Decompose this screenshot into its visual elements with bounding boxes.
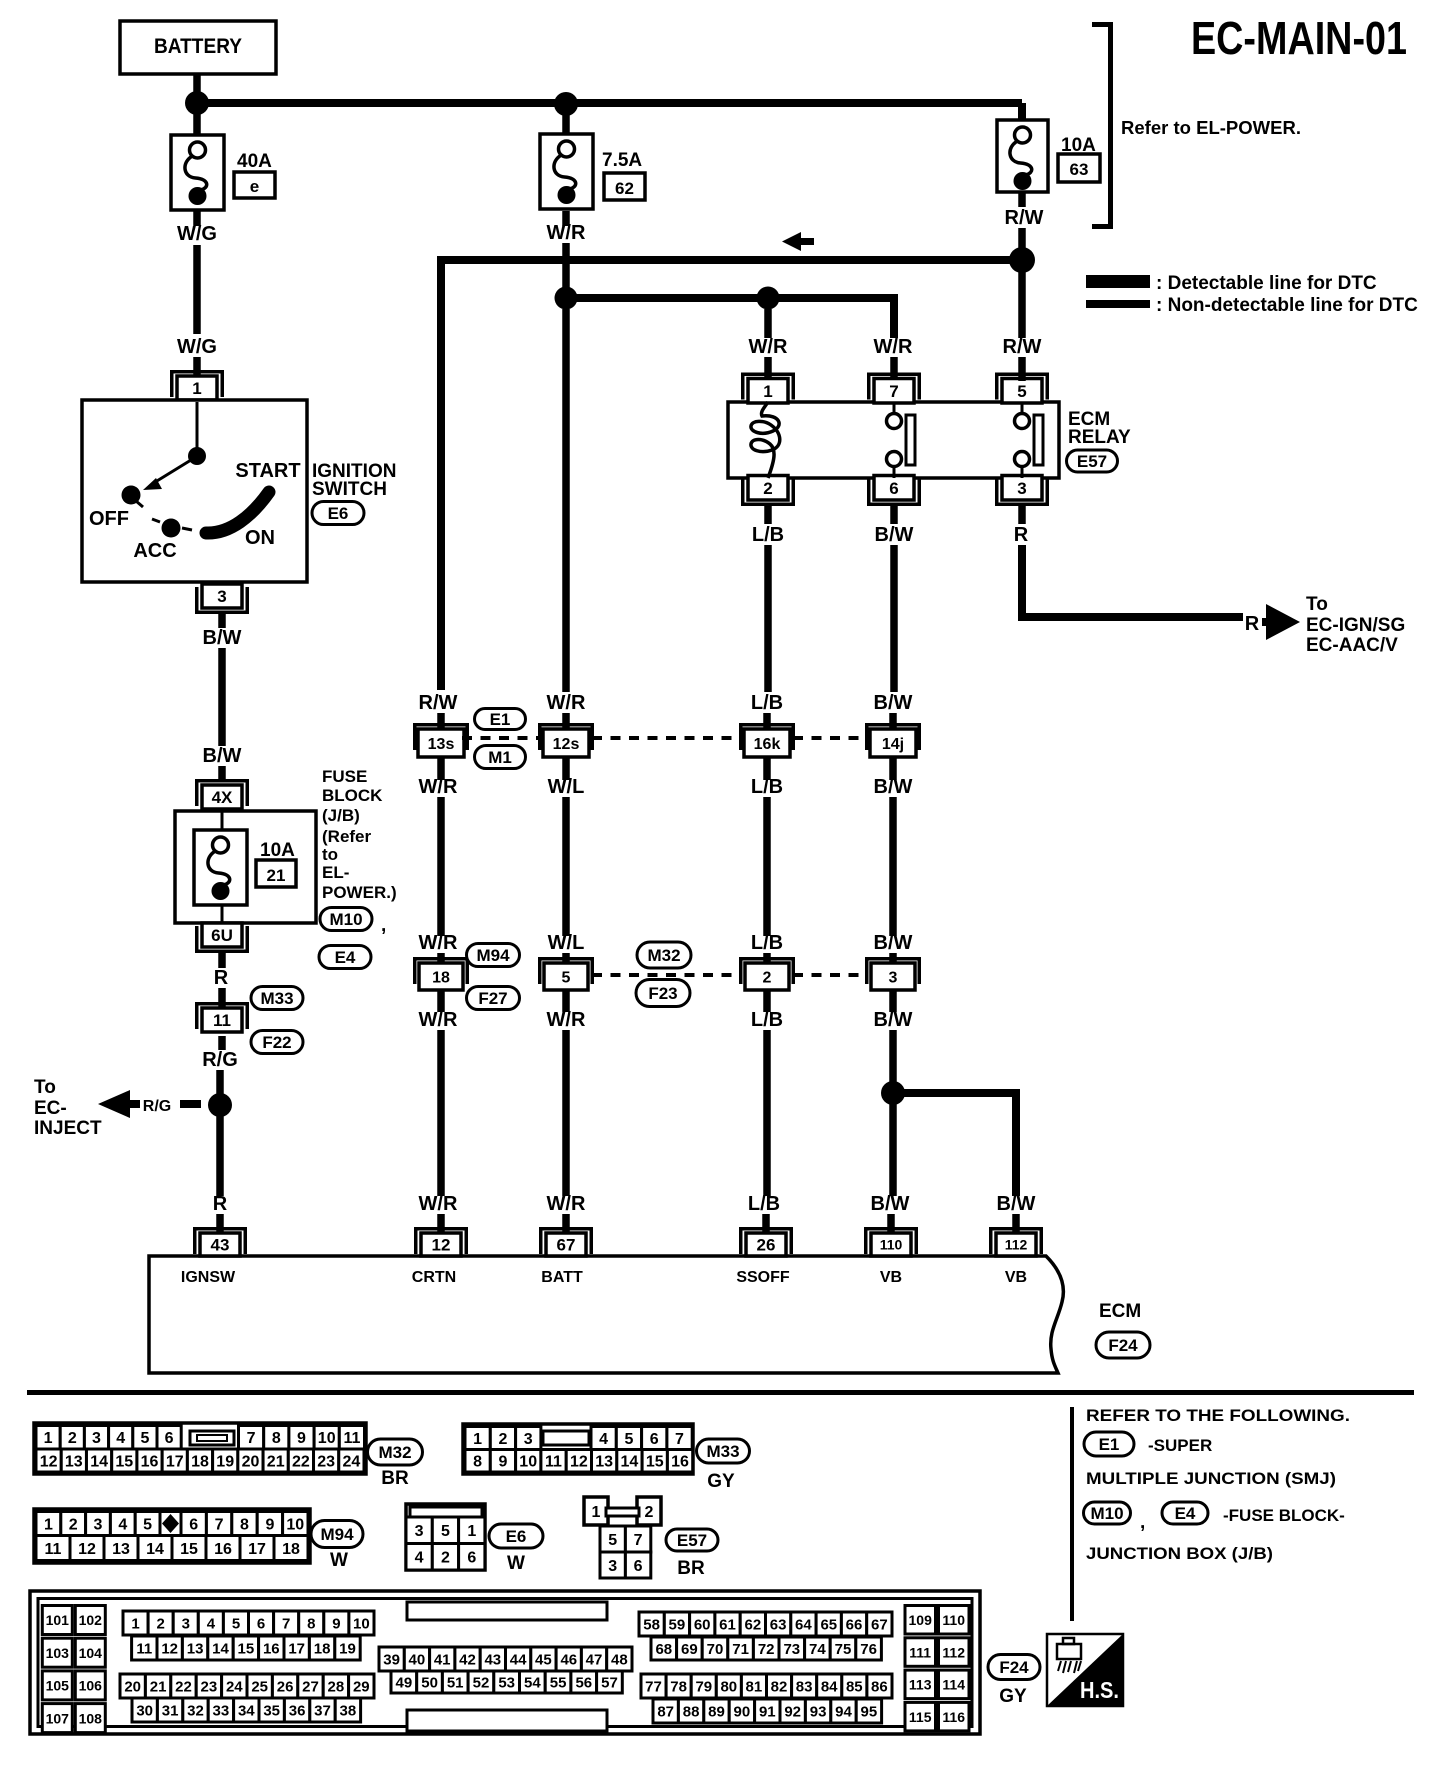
wire stub to 5 [562,953,570,966]
ECM pin 110 [864,1227,918,1256]
svg-text:SWITCH: SWITCH [312,479,387,500]
wire stub to 14j [889,713,897,731]
svg-text:19: 19 [216,1453,234,1470]
svg-text:7: 7 [889,382,898,401]
svg-text:2: 2 [68,1430,77,1447]
svg-text:48: 48 [611,1651,628,1668]
svg-text:9: 9 [265,1516,274,1533]
svg-text:74: 74 [809,1641,826,1658]
svg-text:16: 16 [263,1640,280,1657]
wire inside fuse block bottom [221,905,224,924]
wire L/B relay pin2 down [764,506,772,524]
svg-text:102: 102 [79,1612,103,1628]
svg-text:1: 1 [763,382,772,401]
svg-text:37: 37 [314,1702,331,1719]
connector 2 [739,957,795,990]
relay pin 7 [867,373,921,404]
svg-text:13: 13 [65,1453,83,1470]
dashed line 16k to 14j [793,736,868,740]
svg-text:3: 3 [217,587,226,606]
svg-text:63: 63 [770,1616,787,1633]
connector 5 [538,957,594,990]
svg-text:L/B: L/B [751,692,783,714]
connector 16k SMJ [739,723,795,757]
svg-text:88: 88 [683,1703,700,1720]
svg-text:EC-AAC/V: EC-AAC/V [1306,635,1398,656]
ECM box [149,1256,1063,1373]
wire 2 to label [763,990,771,1012]
svg-text:17: 17 [166,1453,184,1470]
svg-text:5: 5 [562,969,571,986]
svg-text:15: 15 [238,1640,255,1657]
svg-text:M94: M94 [320,1525,354,1544]
connector id oval M32 face [368,1439,423,1465]
svg-text:R: R [214,967,229,989]
wire stub to 2 [763,953,771,966]
wire to pin 110 [887,1214,895,1234]
svg-text:18: 18 [432,969,450,986]
svg-text:VB: VB [1005,1269,1027,1286]
wire W/L label to label [562,797,570,936]
wire 12s to label W/L [562,757,570,780]
svg-text:VB: VB [880,1269,902,1286]
svg-text:116: 116 [942,1709,965,1725]
svg-text:82: 82 [771,1678,788,1695]
svg-text:W/R: W/R [419,932,458,954]
svg-text:34: 34 [238,1702,255,1719]
legend non-detectable line bar [1086,300,1150,308]
svg-text:B/W: B/W [874,932,913,954]
connector id oval M94 face [311,1521,363,1548]
wire R label to pin 11 [218,988,226,1009]
ECM pin 67 [539,1227,593,1256]
svg-text:E4: E4 [335,948,356,967]
connector id oval E57 relay [1067,450,1118,472]
svg-text:,: , [1140,1512,1145,1533]
svg-text:CRTN: CRTN [412,1269,456,1286]
svg-text:E4: E4 [1175,1504,1196,1523]
svg-text:M1: M1 [488,748,512,767]
svg-text:11: 11 [343,1430,360,1447]
svg-text:7: 7 [675,1431,684,1448]
wire corner R/W from bus [437,260,445,690]
svg-text:: Detectable line for DTC: : Detectable line for DTC [1156,273,1377,294]
connector id oval E4 note [1162,1502,1208,1524]
svg-text:20: 20 [124,1678,141,1695]
svg-text:6: 6 [257,1615,265,1632]
svg-text:57: 57 [601,1674,618,1691]
svg-text:62: 62 [615,179,634,198]
svg-text:70: 70 [707,1641,724,1658]
svg-text:JUNCTION BOX (J/B): JUNCTION BOX (J/B) [1086,1544,1273,1563]
connector M33 pin grid [463,1424,693,1474]
wire R/G label to junction dot [216,1070,224,1096]
relay pin 6 [867,476,921,507]
svg-text:26: 26 [277,1678,294,1695]
svg-text:23: 23 [201,1678,218,1695]
junction dot bus fuse 62 [554,92,578,116]
svg-text:SSOFF: SSOFF [736,1269,790,1286]
svg-text:12: 12 [570,1454,588,1471]
junction dot B/W [881,1081,905,1105]
svg-text:5: 5 [1017,382,1026,401]
dashed line 2 to 3 [793,973,868,977]
svg-text:93: 93 [810,1703,827,1720]
connector 13s SMJ [413,723,469,757]
connector id oval E6 face [489,1524,543,1548]
svg-text:E6: E6 [506,1527,527,1546]
svg-text:F22: F22 [262,1033,291,1052]
svg-text:43: 43 [484,1651,501,1668]
connector id oval E4 [319,946,371,969]
svg-text:62: 62 [745,1616,762,1633]
svg-text:6: 6 [634,1558,643,1575]
svg-text:13: 13 [187,1640,204,1657]
F24 slot top [407,1602,607,1620]
svg-text:BATT: BATT [541,1269,583,1286]
svg-text:R/W: R/W [419,692,458,714]
svg-text:4: 4 [415,1550,424,1567]
battery [120,21,276,74]
svg-text:86: 86 [871,1678,888,1695]
svg-text:5: 5 [140,1430,149,1447]
svg-text:E57: E57 [1077,452,1107,471]
svg-text:75: 75 [835,1641,852,1658]
svg-text:1: 1 [131,1615,139,1632]
svg-text:6: 6 [165,1430,174,1447]
relay pin 1 [741,373,795,404]
connector id oval F27 [467,987,520,1010]
svg-text:73: 73 [783,1641,800,1658]
svg-text:11: 11 [136,1640,152,1657]
svg-text:OFF: OFF [89,508,129,530]
svg-text:59: 59 [669,1616,686,1633]
wire 3 to label [889,990,897,1012]
svg-text:101: 101 [46,1612,70,1628]
legend detectable line bar [1086,275,1150,288]
svg-text:87: 87 [657,1703,674,1720]
svg-text:18: 18 [282,1541,300,1558]
svg-text:84: 84 [821,1678,838,1695]
svg-text:89: 89 [708,1703,725,1720]
svg-text:GY: GY [999,1686,1027,1707]
arrow to EC-IGN/SG [1262,604,1300,640]
svg-text:114: 114 [942,1677,965,1693]
svg-text:4: 4 [118,1516,127,1533]
fuse 10A 63 [997,120,1048,192]
svg-text:7: 7 [247,1430,256,1447]
svg-text:41: 41 [434,1651,451,1668]
svg-text:69: 69 [681,1641,698,1658]
wire 14j to label [889,757,897,780]
svg-text:3: 3 [524,1431,533,1448]
svg-text:1: 1 [467,1523,476,1540]
svg-text:19: 19 [339,1640,356,1657]
svg-text:W/R: W/R [874,336,913,358]
wire R/W fuse63 to dot [1018,192,1026,338]
svg-text:3: 3 [182,1615,190,1632]
svg-text:1: 1 [473,1431,482,1448]
svg-text:6: 6 [189,1516,198,1533]
svg-text:W/R: W/R [547,1193,586,1215]
wire W/G label to pin 1 [193,357,201,378]
pin 3 ignition switch [195,584,249,614]
svg-text:EC-: EC- [34,1098,67,1119]
svg-text:13s: 13s [428,736,455,753]
svg-text:5: 5 [143,1516,152,1533]
svg-text:3: 3 [608,1558,617,1575]
svg-text:11: 11 [213,1011,231,1030]
svg-text:61: 61 [719,1616,736,1633]
svg-text:e: e [250,177,259,196]
svg-text:18: 18 [314,1640,331,1657]
wire 16k to label [763,757,771,780]
svg-text:106: 106 [79,1678,103,1694]
svg-text:16: 16 [141,1453,159,1470]
F24 pin rows 58-76 [639,1612,892,1660]
connector id oval E6 [312,502,364,525]
svg-text:W/R: W/R [419,776,458,798]
svg-text:H.S.: H.S. [1080,1677,1119,1703]
svg-text:ECM: ECM [1099,1301,1141,1322]
F24 pin rows 1-19 [123,1611,374,1660]
svg-text:13: 13 [595,1454,613,1471]
svg-text:3: 3 [92,1430,101,1447]
svg-text:56: 56 [575,1674,592,1691]
F24 slot bottom [407,1710,607,1731]
dashed line 13s to 12s [462,736,538,740]
svg-text:5: 5 [232,1615,240,1632]
svg-text:10: 10 [286,1516,304,1533]
svg-text:B/W: B/W [997,1193,1036,1215]
svg-text:31: 31 [162,1702,179,1719]
svg-text:7: 7 [215,1516,224,1533]
connector E6 pin grid [406,1504,485,1570]
svg-text:7: 7 [282,1615,290,1632]
svg-text:10: 10 [353,1615,370,1632]
pin 4X fuse block [195,779,249,809]
svg-text:11: 11 [545,1454,562,1471]
svg-text:65: 65 [820,1616,837,1633]
svg-text:49: 49 [396,1674,413,1691]
svg-text:109: 109 [909,1612,933,1628]
svg-text:,: , [381,915,386,936]
svg-text:-SUPER: -SUPER [1148,1436,1212,1455]
svg-text:26: 26 [757,1236,776,1255]
svg-text:22: 22 [175,1678,192,1695]
svg-text:R: R [1245,613,1260,635]
pin 6U fuse block [195,923,249,953]
svg-text:EC-MAIN-01: EC-MAIN-01 [1191,12,1407,64]
svg-text:To: To [34,1077,56,1098]
svg-text:53: 53 [498,1674,515,1691]
wire horizontal W/R y298 [566,294,894,302]
svg-text:92: 92 [784,1703,801,1720]
svg-text:W/R: W/R [419,1009,458,1031]
svg-text:42: 42 [459,1651,476,1668]
svg-text:GY: GY [707,1471,735,1492]
wire to pin 26 [762,1214,770,1234]
wire B/W relay pin6 down [890,506,898,524]
ignition switch internals [122,402,270,538]
wire bus to fuse 62 [562,104,570,135]
svg-text:66: 66 [846,1616,863,1633]
svg-text:M10: M10 [1090,1504,1123,1523]
svg-text:77: 77 [645,1678,662,1695]
svg-text:12: 12 [432,1236,451,1255]
ECM pin 43 [193,1227,247,1256]
svg-text:21: 21 [267,866,286,885]
svg-text:6: 6 [467,1550,476,1567]
svg-text:110: 110 [942,1612,965,1628]
svg-text:8: 8 [240,1516,249,1533]
svg-text:W/R: W/R [547,692,586,714]
svg-text:14: 14 [621,1454,639,1471]
svg-text:107: 107 [46,1710,70,1726]
junction dot R/W [1009,247,1035,273]
svg-text:28: 28 [328,1678,345,1695]
svg-text:4: 4 [599,1431,608,1448]
svg-text:36: 36 [289,1702,306,1719]
svg-text:3: 3 [94,1516,103,1533]
svg-text:MULTIPLE JUNCTION (SMJ): MULTIPLE JUNCTION (SMJ) [1086,1469,1336,1488]
relay pin 5 [995,373,1049,404]
svg-text:12: 12 [40,1453,58,1470]
svg-text:94: 94 [835,1703,852,1720]
svg-text:To: To [1306,594,1328,615]
svg-text:W/R: W/R [749,336,788,358]
label ECM RELAY [1068,409,1131,448]
svg-text:: Non-detectable line for DTC: : Non-detectable line for DTC [1156,295,1418,316]
svg-text:12: 12 [78,1541,96,1558]
connector M32 pin grid [34,1423,366,1474]
svg-text:START: START [235,460,300,482]
fuse 10A 21 in fuse block [194,830,247,905]
svg-text:to: to [322,845,338,864]
svg-text:R: R [1014,524,1029,546]
wire R label to corner [1018,545,1026,621]
svg-text:8: 8 [307,1615,315,1632]
wire to pin 67 [562,1214,570,1234]
svg-text:60: 60 [694,1616,711,1633]
svg-text:1: 1 [592,1504,601,1521]
svg-text:EC-IGN/SG: EC-IGN/SG [1306,615,1405,636]
svg-text:103: 103 [46,1645,70,1661]
svg-text:R: R [213,1193,228,1215]
svg-text:R/G: R/G [202,1049,238,1071]
svg-text:2: 2 [645,1504,654,1521]
F24 right pin group 109-116 [905,1606,969,1731]
svg-text:BR: BR [677,1558,705,1579]
svg-text:17: 17 [248,1541,266,1558]
svg-text:18: 18 [191,1453,209,1470]
svg-text:B/W: B/W [874,776,913,798]
svg-text:ON: ON [245,527,275,549]
dashed line 5 to 2 [592,973,740,977]
svg-text:90: 90 [734,1703,751,1720]
svg-text:F23: F23 [648,984,677,1003]
svg-text:80: 80 [720,1678,737,1695]
svg-text:-FUSE BLOCK-: -FUSE BLOCK- [1223,1506,1345,1525]
svg-text:67: 67 [871,1616,888,1633]
F24 pin rows 20-38 [120,1674,374,1722]
svg-text:91: 91 [759,1703,776,1720]
ignition switch E6 box [82,400,307,582]
svg-text:4: 4 [116,1430,125,1447]
wire R label to pin 43 [216,1214,224,1234]
vertical rule refer section [1070,1407,1074,1621]
svg-text:INJECT: INJECT [34,1118,102,1139]
svg-text:1: 1 [44,1516,53,1533]
svg-text:W/R: W/R [547,1009,586,1031]
wire dot to label above pin 110 [889,1104,897,1196]
svg-text:63: 63 [1070,160,1089,179]
connector id oval M32 smj [637,942,691,968]
pin 1 ignition switch [170,370,224,400]
fuse 40A e [171,135,224,210]
svg-text:3: 3 [415,1523,424,1540]
svg-text:10: 10 [318,1430,336,1447]
svg-text:22: 22 [292,1453,310,1470]
svg-text:81: 81 [746,1678,763,1695]
svg-text:2: 2 [763,969,772,986]
svg-text:76: 76 [860,1641,877,1658]
svg-text:12s: 12s [553,736,580,753]
svg-text:43: 43 [211,1236,230,1255]
wire to label above 2 [763,797,771,936]
svg-text:B/W: B/W [875,524,914,546]
svg-text:(Refer: (Refer [322,827,372,846]
label To EC-INJECT [34,1077,102,1139]
svg-text:L/B: L/B [752,524,784,546]
svg-text:112: 112 [1005,1237,1028,1253]
ECM pin 26 [739,1227,793,1256]
svg-text:F24: F24 [1108,1336,1138,1355]
svg-text:14: 14 [146,1541,164,1558]
wire W/G fuse to label [193,210,201,226]
svg-text:BATTERY: BATTERY [154,35,242,58]
svg-text:16: 16 [671,1454,689,1471]
svg-text:2: 2 [69,1516,78,1533]
svg-text:6: 6 [889,479,898,498]
connector id oval M33 face [697,1439,750,1463]
wire top bus [197,103,1022,121]
svg-text:2: 2 [498,1431,507,1448]
fuse 62 output wire [562,211,570,226]
svg-text:27: 27 [302,1678,319,1695]
wire to pin 12 [437,1214,445,1234]
junction dot W/R pin1 branch [757,287,780,310]
wire battery to junction [193,74,201,135]
svg-text:M10: M10 [329,910,362,929]
connector id oval E1 note [1084,1432,1134,1456]
svg-text:52: 52 [473,1674,490,1691]
svg-text:E6: E6 [328,504,349,523]
svg-text:30: 30 [136,1702,153,1719]
svg-text:W/L: W/L [548,776,585,798]
relay pin 2 [741,476,795,507]
wire stub label to 12s [562,713,570,731]
connector E57 pin grid [584,1497,661,1578]
connector id oval F22 at pin 11 [251,1031,303,1054]
svg-text:POWER.): POWER.) [322,883,397,902]
wire stub to 18 [437,953,445,966]
svg-text:115: 115 [909,1709,932,1725]
svg-text:F27: F27 [478,989,507,1008]
wire label to relay pin 5 [1018,357,1026,381]
svg-text:110: 110 [880,1237,903,1253]
svg-text:5: 5 [608,1532,617,1549]
